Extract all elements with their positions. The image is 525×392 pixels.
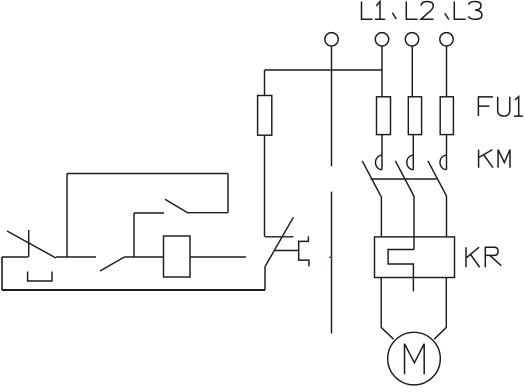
wire: latch branch left riser <box>66 174 68 258</box>
aux contact KM right lead <box>188 212 228 214</box>
wire: start to coil <box>124 256 163 258</box>
thermal contact KR actuator bracket <box>299 236 309 266</box>
wire: KM pole 3 bottom lead <box>446 196 448 237</box>
stop button SB1 moving contact <box>7 231 56 258</box>
thermal contact KR bottom lead <box>264 266 266 290</box>
terminal circle L3 <box>440 33 453 46</box>
motor M letter <box>405 344 425 375</box>
thermal contact KR fixed bar <box>265 236 293 238</box>
wire: motor lead left <box>381 278 393 340</box>
contactor KM pole 3 moving contact <box>428 161 447 196</box>
contactor KM pole 3 fixed hook <box>440 155 447 170</box>
fuse FU1 pole 3 <box>440 97 453 135</box>
wire: latch branch top <box>67 173 228 175</box>
contactor KM pole 3 top lead <box>446 135 448 170</box>
wire: top branch from L1 to control fuse <box>265 69 383 71</box>
wire: L1 drop to fuse <box>381 46 383 97</box>
label KM <box>479 150 510 168</box>
wire: left rail <box>1 257 3 290</box>
motor M circle <box>388 332 441 385</box>
wire: KR contact mid tap <box>274 250 299 252</box>
wire: control tap column lower segment <box>331 192 333 334</box>
thermal relay KR box <box>375 237 455 278</box>
wire: bottom rail <box>2 289 265 291</box>
stop button SB1 cap <box>28 272 52 282</box>
node marker on control tap column <box>328 256 332 259</box>
wire: latch branch right riser <box>227 174 229 213</box>
contactor KM pole 1 top lead <box>381 135 383 170</box>
wire: L3 drop to fuse <box>446 46 448 97</box>
wire: coil output <box>190 256 246 258</box>
label KR <box>466 247 501 267</box>
terminal circle L2 <box>405 33 418 46</box>
wire: motor lead right <box>434 278 446 340</box>
label L1.L2.L3 <box>362 2 482 20</box>
stop button SB1 plunger <box>28 230 30 257</box>
start button SB2 moving contact <box>100 257 124 271</box>
thermal contact KR moving contact <box>265 217 293 266</box>
stop button SB1 left lead <box>2 256 28 258</box>
wire: latch branch left drop <box>133 213 135 257</box>
thermal relay KR heater jog (middle phase) <box>388 250 414 292</box>
contactor KM pole 2 top lead <box>412 135 414 170</box>
label FU1 <box>478 97 523 116</box>
wire: KM pole 2 bottom lead <box>413 196 415 250</box>
coil KM <box>164 236 191 277</box>
aux contact KM moving contact <box>165 199 188 213</box>
terminal circle (control tap) <box>325 33 338 46</box>
terminal circle L1 <box>375 33 388 46</box>
fuse FU1 pole 2 <box>408 97 421 135</box>
fuse FU2 (control) <box>258 96 272 136</box>
wire: control fuse to KR contact top lead <box>264 135 266 237</box>
wire: L2 drop to fuse <box>411 46 413 97</box>
wire: KM pole 1 bottom lead <box>380 196 382 237</box>
contactor KM pole 2 fixed hook <box>407 155 413 170</box>
wire: control branch drop to fuse FU2 <box>264 70 266 96</box>
wire: control tap column upper segment <box>331 46 333 166</box>
contactor KM pole 2 moving contact <box>395 161 414 196</box>
aux contact KM left lead <box>134 212 164 214</box>
fuse FU1 pole 1 <box>377 97 391 135</box>
contactor KM pole 1 moving contact <box>362 161 381 196</box>
contactor KM linkage bar <box>371 178 437 180</box>
wire: stop to start <box>56 256 96 258</box>
contactor KM pole 1 fixed hook <box>376 155 382 170</box>
